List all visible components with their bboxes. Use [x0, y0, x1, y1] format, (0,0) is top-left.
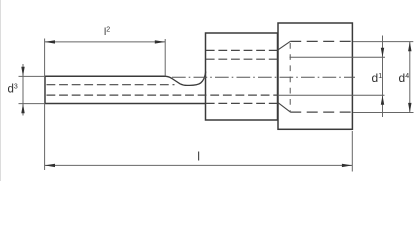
- pin top edge: [45, 75, 167, 77]
- d1 arrow bottom (points up): [381, 95, 384, 105]
- d4 arrow bottom (points down): [408, 103, 411, 113]
- hidden line: insulation bore bottom: [290, 111, 352, 113]
- insulation sleeve (right) outline: [278, 23, 352, 129]
- funnel taper top: [278, 41, 290, 49]
- hidden line: mid barrel wire top: [206, 58, 278, 60]
- l2 arrow left: [45, 40, 55, 43]
- l dimension line: [45, 164, 353, 166]
- hidden line: pin upper: [47, 84, 175, 86]
- d4 top extension: [353, 41, 413, 43]
- pin bottom edge: [45, 103, 206, 105]
- bore visible edge top (d1 feature + extension): [290, 56, 386, 58]
- dimension l: [45, 131, 353, 172]
- d4 bottom extension: [353, 112, 414, 114]
- transition S-curve: [166, 72, 206, 86]
- d3 bottom extension: [19, 103, 45, 105]
- d3 top extension: [19, 75, 45, 77]
- l arrow right: [342, 164, 352, 167]
- dimension d4: [353, 42, 414, 113]
- d1 dimension line: [382, 36, 384, 118]
- l arrow left: [45, 164, 55, 167]
- d3 dimension line: [22, 64, 24, 116]
- dimension l2: [45, 39, 166, 171]
- metal barrel (mid) outline: [206, 33, 278, 120]
- l right extension line: [351, 131, 353, 172]
- left shared extension line: [44, 39, 46, 171]
- dimension d1: [382, 36, 384, 118]
- pin blade outline: [45, 72, 206, 104]
- svg-text:d1: d1: [372, 71, 383, 85]
- hidden line: funnel mouth vertical: [289, 43, 291, 112]
- left image edge artifact: [0, 0, 2, 181]
- centerline: [172, 76, 355, 78]
- bore visible edge bottom (d1 feature + extension): [278, 94, 385, 96]
- l2 right extension line: [164, 39, 166, 76]
- svg-text:l2: l2: [104, 27, 110, 38]
- funnel taper bottom: [278, 103, 290, 112]
- hidden line: mid barrel bore top: [206, 49, 278, 51]
- d4 arrow top (points up): [408, 42, 411, 52]
- l2 arrow right: [155, 40, 165, 43]
- hidden line: pin lower / wire, continues through mid barrel: [47, 94, 278, 96]
- svg-text:d4: d4: [399, 71, 410, 85]
- hidden line: insulation bore top: [290, 40, 352, 42]
- d1 arrow top (points down): [381, 48, 384, 58]
- svg-text:d3: d3: [8, 84, 18, 96]
- svg-text:l: l: [197, 152, 200, 164]
- d3 arrow bottom: [21, 104, 24, 114]
- dimension d3: [19, 64, 45, 116]
- pin left end: [44, 76, 46, 103]
- hidden line: mid barrel bore bottom: [206, 102, 278, 104]
- d4 dimension line: [409, 42, 411, 113]
- d3 arrow top: [21, 67, 24, 77]
- l2 dimension line: [45, 41, 166, 43]
